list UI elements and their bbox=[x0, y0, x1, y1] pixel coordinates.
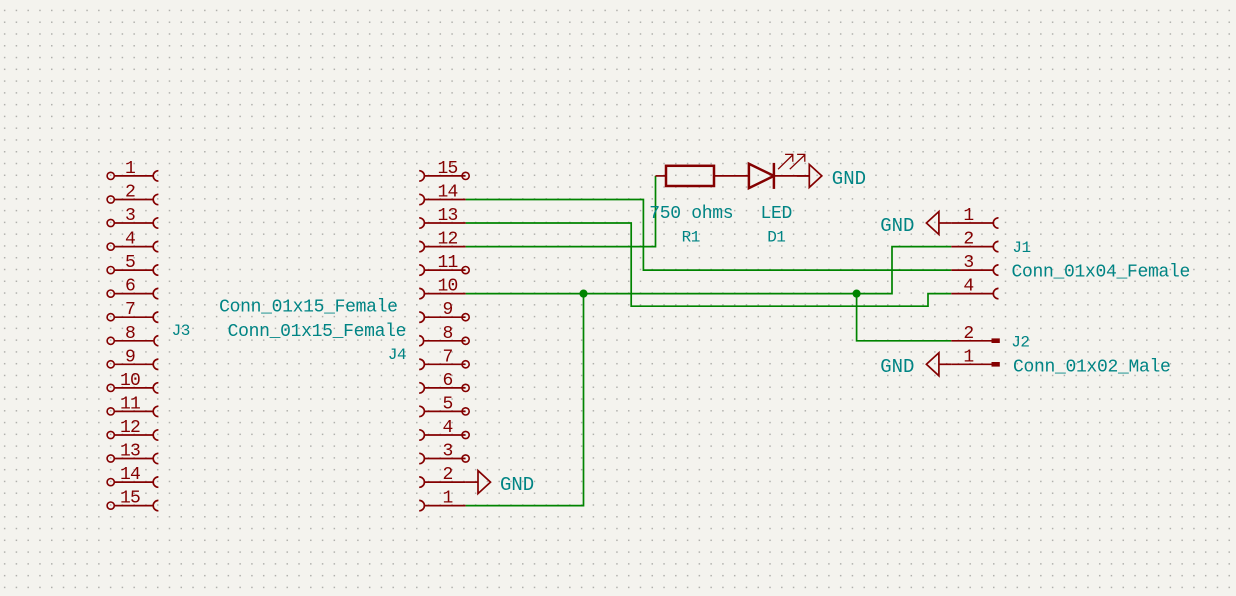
LED D1 bbox=[749, 154, 809, 246]
connector J3 pin 11 bbox=[107, 394, 158, 416]
connector J4 pin 2 bbox=[419, 465, 465, 487]
connector J1 pin 4 bbox=[951, 277, 998, 299]
connector J4 pin 11 bbox=[419, 253, 469, 275]
svg-text:D1: D1 bbox=[767, 228, 785, 246]
connector J3 pin 15 bbox=[107, 489, 158, 511]
connector J4 pin 6 bbox=[419, 371, 469, 393]
connector J4 pin 9 bbox=[419, 300, 469, 322]
connector J3 pin 7 bbox=[107, 300, 158, 322]
svg-text:Conn_01x15_Female: Conn_01x15_Female bbox=[228, 322, 407, 342]
connector J4 pin 5 bbox=[419, 394, 469, 416]
connector J3 pin 9 bbox=[107, 347, 158, 369]
connector J1 pin 1 bbox=[951, 206, 998, 228]
junction B bbox=[853, 290, 861, 298]
svg-text:Conn_01x04_Female: Conn_01x04_Female bbox=[1012, 262, 1191, 282]
svg-text:2: 2 bbox=[963, 324, 973, 344]
svg-text:J2: J2 bbox=[1011, 334, 1029, 352]
svg-text:3: 3 bbox=[442, 442, 452, 462]
ground GND at LED cathode bbox=[797, 164, 822, 187]
connector J1 (Conn_01x04_Female) bbox=[951, 206, 1190, 299]
svg-text:GND: GND bbox=[832, 168, 866, 190]
resistor R1 750 ohms bbox=[649, 166, 749, 247]
svg-text:4: 4 bbox=[442, 418, 452, 438]
wire J4 pin 13 to J1 pin 4 bbox=[466, 223, 952, 306]
connector J3 pin 5 bbox=[107, 253, 158, 275]
connector J3 pin 6 bbox=[107, 277, 158, 299]
svg-text:11: 11 bbox=[437, 253, 457, 273]
connector J3 pin 14 bbox=[107, 465, 158, 487]
svg-text:15: 15 bbox=[437, 159, 457, 179]
svg-text:J1: J1 bbox=[1012, 239, 1030, 257]
connector J4 pin 10 bbox=[419, 277, 465, 299]
svg-text:2: 2 bbox=[442, 465, 452, 485]
wire J4 pin 12 to R1 bbox=[466, 176, 656, 247]
wire J4 pin 14 to J1 pin 3 bbox=[466, 200, 952, 271]
wire junction A to J4 pin 1 bbox=[466, 294, 584, 506]
svg-text:8: 8 bbox=[125, 324, 135, 344]
svg-text:12: 12 bbox=[120, 418, 140, 438]
svg-text:2: 2 bbox=[963, 230, 973, 250]
connector J3 pin 1 bbox=[107, 159, 158, 181]
ground GND at J4 pin 2 bbox=[466, 471, 491, 494]
wire J4 pin 10 to J1 pin 2 bbox=[466, 247, 952, 294]
connector J4 pin 15 bbox=[419, 159, 469, 181]
svg-text:1: 1 bbox=[125, 159, 135, 179]
svg-text:750 ohms: 750 ohms bbox=[649, 204, 733, 224]
connector J3 (Conn_01x15_Female) bbox=[107, 159, 398, 511]
svg-text:9: 9 bbox=[442, 300, 452, 320]
connector J3 pin 8 bbox=[107, 324, 158, 346]
connector J1 pin 2 bbox=[951, 230, 998, 252]
svg-text:10: 10 bbox=[437, 277, 457, 297]
svg-text:GND: GND bbox=[500, 474, 534, 496]
svg-text:3: 3 bbox=[963, 253, 973, 273]
svg-text:14: 14 bbox=[437, 183, 457, 203]
svg-text:13: 13 bbox=[437, 206, 457, 226]
svg-text:11: 11 bbox=[120, 394, 140, 414]
svg-text:8: 8 bbox=[442, 324, 452, 344]
svg-text:5: 5 bbox=[125, 253, 135, 273]
connector J4 pin 14 bbox=[419, 183, 465, 205]
connector J2 pin 1 bbox=[951, 347, 1000, 367]
connector J4 (Conn_01x15_Female) bbox=[228, 159, 470, 511]
connector J4 pin 1 bbox=[419, 489, 465, 511]
connector J3 pin 10 bbox=[107, 371, 158, 393]
svg-text:GND: GND bbox=[880, 215, 914, 237]
connector J3 pin 12 bbox=[107, 418, 158, 440]
wire junction B to J2 pin 2 bbox=[857, 294, 952, 341]
connector J3 pin 13 bbox=[107, 442, 158, 464]
svg-text:15: 15 bbox=[120, 489, 140, 509]
svg-text:GND: GND bbox=[880, 356, 914, 378]
svg-text:4: 4 bbox=[125, 230, 135, 250]
connector J1 pin 3 bbox=[951, 253, 998, 275]
svg-text:R1: R1 bbox=[682, 228, 700, 246]
connector J3 pin 3 bbox=[107, 206, 158, 228]
svg-text:7: 7 bbox=[442, 347, 452, 367]
LED D1 emission arrow 2 bbox=[790, 154, 805, 169]
svg-text:3: 3 bbox=[125, 206, 135, 226]
junction A bbox=[579, 290, 587, 298]
svg-text:Conn_01x15_Female: Conn_01x15_Female bbox=[219, 297, 398, 317]
connector J3 pin 2 bbox=[107, 183, 158, 205]
svg-text:12: 12 bbox=[437, 230, 457, 250]
svg-text:9: 9 bbox=[125, 347, 135, 367]
ground GND at J1 pin 1 bbox=[926, 212, 951, 235]
svg-text:1: 1 bbox=[963, 206, 973, 226]
svg-text:10: 10 bbox=[120, 371, 140, 391]
ground GND at J2 pin 1 bbox=[926, 353, 951, 376]
svg-text:1: 1 bbox=[442, 489, 452, 509]
connector J4 pin 13 bbox=[419, 206, 465, 228]
connector J4 pin 12 bbox=[419, 230, 465, 252]
connector J2 (Conn_01x02_Male) bbox=[951, 324, 1170, 378]
svg-text:4: 4 bbox=[963, 277, 973, 297]
svg-text:7: 7 bbox=[125, 300, 135, 320]
svg-text:2: 2 bbox=[125, 183, 135, 203]
connector J2 pin 2 bbox=[951, 324, 1000, 344]
svg-text:1: 1 bbox=[963, 347, 973, 367]
svg-text:J4: J4 bbox=[388, 346, 406, 364]
connector J4 pin 4 bbox=[419, 418, 469, 440]
svg-text:6: 6 bbox=[125, 277, 135, 297]
svg-text:J3: J3 bbox=[172, 322, 190, 340]
connector J4 pin 8 bbox=[419, 324, 469, 346]
svg-text:5: 5 bbox=[442, 394, 452, 414]
svg-text:6: 6 bbox=[442, 371, 452, 391]
svg-text:13: 13 bbox=[120, 442, 140, 462]
connector J4 pin 7 bbox=[419, 347, 469, 369]
svg-text:14: 14 bbox=[120, 465, 140, 485]
connector J4 pin 3 bbox=[419, 442, 469, 464]
svg-text:Conn_01x02_Male: Conn_01x02_Male bbox=[1013, 358, 1171, 378]
connector J3 pin 4 bbox=[107, 230, 158, 252]
svg-text:LED: LED bbox=[761, 204, 793, 224]
LED D1 emission arrow 1 bbox=[778, 154, 793, 169]
